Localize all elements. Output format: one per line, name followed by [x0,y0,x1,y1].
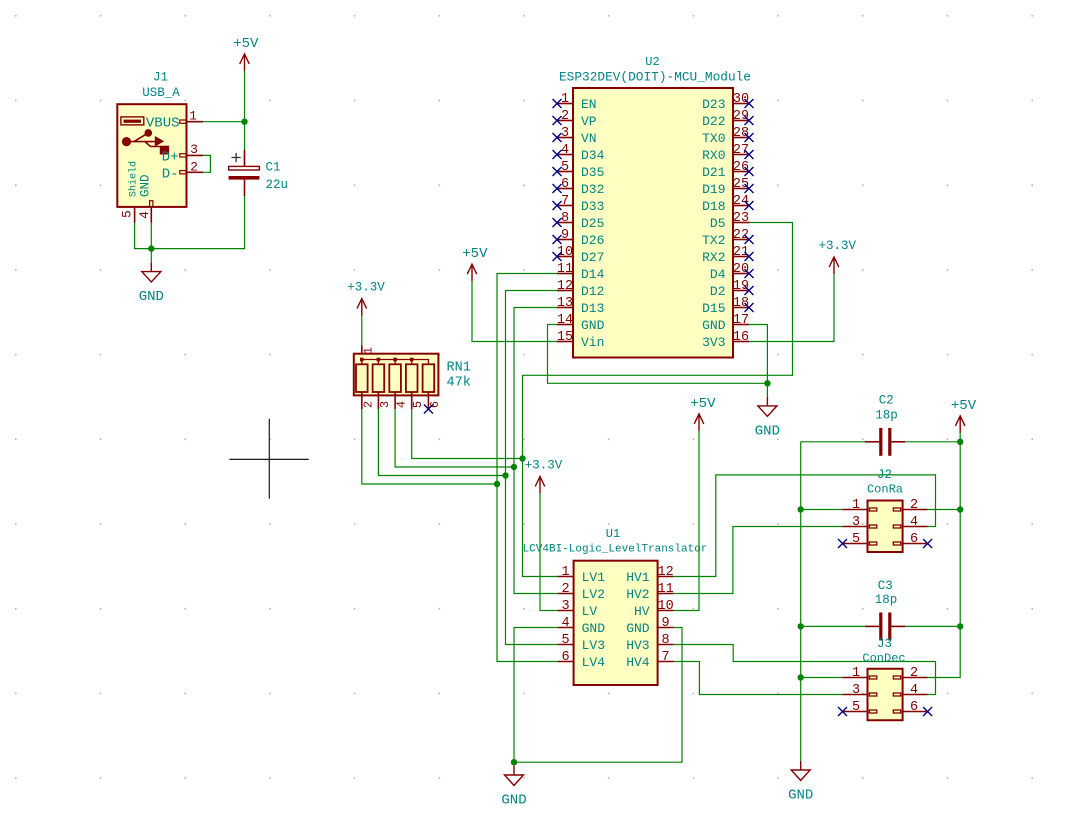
J1 pin 4 GND [137,174,153,222]
svg-text:4: 4 [395,401,409,408]
J2 pin 6 (right) [893,532,927,547]
svg-text:HV4: HV4 [626,655,650,670]
svg-text:USB_A: USB_A [142,86,180,100]
wire U1 pin9 GND loop [514,628,682,763]
connector J1 USB_A body [117,104,186,207]
svg-text:Vin: Vin [581,335,604,350]
svg-text:2: 2 [561,109,569,124]
svg-text:D25: D25 [581,216,604,231]
J1 pin 1 VBUS [146,109,203,132]
RN1 pin 4 (bottom) [395,392,409,409]
wire RN1 pin1 to +3.3V [361,315,363,345]
svg-text:11: 11 [657,582,673,597]
J3 pin 5 no-connect [838,707,847,716]
svg-text:ConRa: ConRa [867,482,903,496]
U2 pin 28 TX0 (right) [702,126,753,146]
svg-text:3: 3 [562,599,570,614]
svg-text:6: 6 [910,700,918,715]
power symbol +5V (above Vin) [462,246,488,281]
svg-text:18p: 18p [875,409,898,423]
wire RN1 pin 4 to bus junction [395,409,514,467]
svg-text:TX2: TX2 [702,233,725,248]
svg-text:EN: EN [581,97,597,112]
wire J1 pin5 to GND run [135,223,152,249]
U2 pin 26 D21 (right) [702,160,753,180]
junction GND rail at C3 [798,623,804,629]
svg-text:D12: D12 [581,284,604,299]
svg-text:2: 2 [361,401,375,408]
wire +3.3V to U1 pin3 LV [540,493,558,610]
J3 pin 6 (right) [893,700,927,715]
svg-text:22u: 22u [266,178,289,192]
svg-text:25: 25 [733,177,749,192]
svg-text:GND: GND [138,174,152,197]
U2 pin 1 EN (left) [553,92,597,112]
U1 pin 11 HV2 (right) [626,582,674,602]
svg-text:1: 1 [852,666,860,681]
svg-text:10: 10 [557,245,573,260]
svg-text:5: 5 [852,532,860,547]
svg-text:+5V: +5V [690,396,716,412]
U2 pin 2 VP (left) [553,109,597,129]
U2 pin 10 D27 (left) [553,245,605,265]
svg-text:14: 14 [557,313,573,328]
J1 USB trident logo [122,129,169,154]
svg-text:17: 17 [733,313,749,328]
U1 pin 2 LV2 (left) [558,582,605,602]
J2 pin 1 (left) [843,498,877,513]
svg-text:TX0: TX0 [702,131,725,146]
wire J1 pin4 down to GND junction [150,223,152,249]
U2 pin 24 D18 (right) [702,194,753,214]
power symbol +5V (above J1) [233,36,259,71]
wire +5V to U2 Vin [472,281,557,342]
junction U2 ground node [764,380,770,386]
svg-text:HV2: HV2 [626,587,649,602]
svg-text:7: 7 [561,194,569,209]
U1 pin 6 LV4 (left) [558,650,606,670]
U2 pin 15 Vin (left) [557,330,605,350]
svg-text:27: 27 [733,143,749,158]
svg-text:LV3: LV3 [582,638,605,653]
svg-text:+5V: +5V [462,246,488,262]
sheet origin crosshair [229,419,308,499]
svg-text:C2: C2 [879,394,894,408]
svg-text:4: 4 [137,211,152,219]
J3 pin 6 no-connect [923,707,932,716]
svg-text:GND: GND [702,318,726,333]
J2 pin 5 (left) [843,532,877,547]
svg-text:D23: D23 [702,97,725,112]
power symbol +5V (above U1 HV) [690,396,716,431]
svg-text:D34: D34 [581,148,605,163]
wire +5V to VBUS node [244,71,246,122]
wire shorting J1 D+ to D- [203,155,210,172]
svg-text:1: 1 [561,92,569,107]
svg-text:11: 11 [557,262,573,277]
junction RN1 pull-up to D13 line [511,464,517,470]
svg-text:VP: VP [581,114,597,129]
J2 pin 6 no-connect [923,539,932,548]
wire U2 pin16 3V3 to +3.3V [749,274,834,342]
svg-text:12: 12 [557,279,573,294]
U2 pin 8 D25 (left) [553,211,605,231]
svg-text:16: 16 [733,330,749,345]
svg-text:20: 20 [733,262,749,277]
capacitor C1 22u (polarized) [229,122,260,196]
wire C3 right to +5V rail [905,625,960,627]
junction J1 ground node [148,245,154,251]
wire net HV1: U1 pin12 to J2 pin4 [674,475,936,577]
svg-text:47k: 47k [447,375,471,390]
J2 pin 4 (right) [893,515,927,530]
U2 pin 14 GND (left) [557,313,605,333]
wire net D13: U2 pin13 to U1 LV2 [514,308,558,594]
U2 pin 5 D35 (left) [553,160,605,180]
svg-text:D4: D4 [710,267,726,282]
wire RN1 pin 5 to bus junction [412,409,523,459]
power symbol +3.3V (above RN1) [347,281,385,316]
svg-text:D14: D14 [581,267,605,282]
wire RN1 pin 2 to bus junction [362,409,497,484]
J2 pin 2 (right) [893,498,927,513]
svg-text:28: 28 [733,126,749,141]
U1 pin 8 HV3 (right) [626,633,673,653]
wire GND rail (C2/J2/C3/J3) [800,442,802,761]
svg-text:21: 21 [733,245,749,260]
J1 pin 2 D- [162,159,203,182]
svg-text:D15: D15 [702,301,725,316]
svg-text:5: 5 [852,700,860,715]
svg-text:RX2: RX2 [702,250,725,265]
J2 pin 3 (left) [843,515,877,530]
svg-text:1: 1 [562,565,570,580]
svg-text:3: 3 [852,515,860,530]
svg-text:3: 3 [561,126,569,141]
svg-text:19: 19 [733,279,749,294]
RN1 pin 3 (bottom) [378,392,392,409]
svg-text:13: 13 [557,296,573,311]
svg-text:D18: D18 [702,199,725,214]
svg-text:2: 2 [910,498,918,513]
U2 pin 7 D33 (left) [553,194,605,214]
svg-text:3: 3 [378,401,392,408]
U2 pin 20 D4 (right) [710,262,754,282]
svg-text:1: 1 [362,347,376,354]
U1 pin 9 GND (right) [626,616,673,636]
svg-text:ConDec: ConDec [862,651,905,665]
RN1 pin 1 (common, top) [362,345,376,354]
svg-text:VBUS: VBUS [146,116,180,132]
svg-text:D-: D- [162,166,179,182]
svg-text:5: 5 [119,210,134,218]
svg-text:5: 5 [562,633,570,648]
U2 pin 30 D23 (right) [702,92,753,112]
svg-text:8: 8 [561,211,569,226]
U2 pin 6 D32 (left) [553,177,605,197]
svg-text:6: 6 [561,177,569,192]
svg-text:U1: U1 [606,527,620,541]
junction +5V rail at C2 [957,439,963,445]
junction +5V rail at J2 pin2 [957,506,963,512]
svg-text:4: 4 [910,683,918,698]
U2 pin 21 RX2 (right) [702,245,753,265]
svg-text:D5: D5 [710,216,726,231]
ground symbol GND (bottom right) [788,761,813,803]
wire net HV2: J2 pin3 to U1 pin11 [674,527,843,594]
U2 pin 29 D22 (right) [702,109,753,129]
wire +5V to U1 pin10 HV [674,431,699,611]
svg-text:24: 24 [733,194,749,209]
U2 pin 13 D13 (left) [557,296,605,316]
wire C3 left to GND rail [801,625,865,627]
svg-text:+3.3V: +3.3V [347,281,385,295]
J3 pin 4 (right) [893,683,927,698]
U1 pin 4 GND (left) [558,616,606,636]
junction RN1 pull-up to D12 line [502,472,508,478]
svg-text:5: 5 [411,401,425,408]
svg-text:3V3: 3V3 [702,335,725,350]
svg-text:D33: D33 [581,199,604,214]
wire U2 pin14 GND to ground rail [548,325,768,384]
svg-text:LV2: LV2 [582,587,605,602]
RN1 pin 2 (bottom) [361,392,375,409]
U2 pin 23 D5 (right) [710,211,749,231]
svg-text:D2: D2 [710,284,726,299]
U2 pin 3 VN (left) [553,126,597,146]
svg-text:6: 6 [562,650,570,665]
svg-text:2: 2 [562,582,570,597]
wire net D12: U2 pin12 to U1 LV3 [506,291,558,645]
wire net HV3: U1 pin8 to J3 pin4 [674,645,936,695]
U1 pin 5 LV3 (left) [558,633,605,653]
svg-text:15: 15 [557,330,573,345]
svg-text:1: 1 [189,109,197,124]
J1 pin 3 D+ [162,142,203,165]
svg-text:J2: J2 [877,468,892,482]
wire stub to GND symbol [150,249,152,263]
svg-text:VN: VN [581,131,597,146]
capacitor C3 18p [865,613,905,641]
svg-text:5: 5 [561,160,569,175]
svg-text:LV: LV [582,604,598,619]
svg-text:9: 9 [561,228,569,243]
svg-text:GND: GND [788,787,813,803]
svg-text:D35: D35 [581,165,604,180]
svg-text:23: 23 [733,211,749,226]
wire +5V rail down to J3 pin2 [928,433,961,678]
U2 pin 18 D15 (right) [702,296,753,316]
svg-text:RX0: RX0 [702,148,725,163]
U1 pin 1 LV1 (left) [558,565,606,585]
svg-text:2: 2 [910,666,918,681]
U2 pin 22 TX2 (right) [702,228,753,248]
wire J1 VBUS to node A [203,121,245,123]
resistor network RN1 body [354,354,439,396]
svg-text:4: 4 [910,515,918,530]
ground symbol GND (below J1) [139,263,164,305]
power symbol +3.3V (right of U2) [818,239,856,274]
svg-text:HV: HV [634,604,650,619]
svg-text:GND: GND [755,423,780,439]
svg-text:+5V: +5V [233,36,259,52]
svg-text:3: 3 [852,683,860,698]
MCU module U2 body [573,88,733,358]
svg-text:18p: 18p [875,593,898,607]
svg-text:2: 2 [190,159,198,174]
svg-text:+3.3V: +3.3V [525,459,563,473]
svg-text:D+: D+ [162,149,179,165]
U1 pin 12 HV1 (right) [626,565,674,585]
svg-text:LV1: LV1 [582,570,606,585]
junction U1 ground node [511,759,517,765]
svg-text:U2: U2 [645,55,659,69]
U2 pin 12 D12 (left) [557,279,605,299]
svg-text:22: 22 [733,228,749,243]
svg-text:ESP32DEV(DOIT)-MCU_Module: ESP32DEV(DOIT)-MCU_Module [559,70,751,85]
wire net D14: U2 pin11 to U1 LV4 [497,274,558,662]
svg-text:LV4: LV4 [582,655,606,670]
svg-text:RN1: RN1 [447,361,471,376]
svg-text:10: 10 [657,599,673,614]
wire J2 pin1 to GND rail [801,509,843,511]
wire C1 bottom to GND run [151,196,244,249]
U2 pin 27 RX0 (right) [702,143,753,163]
junction RN1 pull-up to D5 line [519,455,525,461]
wire net HV4: U1 pin7 to J3 pin3 [674,662,843,695]
junction GND rail at J3 pin1 [798,674,804,680]
svg-text:LCV4BI-Logic_LevelTranslator: LCV4BI-Logic_LevelTranslator [523,544,708,556]
svg-text:1: 1 [852,498,860,513]
svg-text:30: 30 [733,92,749,107]
svg-text:D32: D32 [581,182,604,197]
U2 pin 4 D34 (left) [553,143,605,163]
svg-text:GND: GND [501,792,526,808]
RN1 pin 5 (bottom) [411,392,425,409]
U1 pin 3 LV (left) [558,599,598,619]
wire RN1 pin 3 to bus junction [378,409,505,476]
power symbol +5V (top right) [951,398,977,433]
junction RN1 pull-up to D14 line [494,481,500,487]
J2 pin 5 no-connect [838,539,847,548]
junction node A (VBUS/+5V/C1) [241,119,247,125]
J3 pin 1 (left) [843,666,877,681]
svg-text:8: 8 [662,633,670,648]
U2 pin 19 D2 (right) [710,279,754,299]
svg-text:D26: D26 [581,233,604,248]
wire J2 pin2 to +5V rail [928,509,961,511]
J1 pin 5 Shield [119,161,139,223]
U2 pin 25 D19 (right) [702,177,753,197]
connector J3 ConDec body [868,669,903,721]
U2 pin 11 D14 (left) [557,262,605,282]
capacitor C2 18p [865,428,905,456]
svg-text:4: 4 [561,143,569,158]
svg-text:GND: GND [581,318,605,333]
wire C2 left to GND rail [801,441,865,443]
svg-text:3: 3 [190,142,198,157]
wire U2 pin17 GND down [749,325,767,397]
svg-text:+3.3V: +3.3V [818,239,856,253]
power symbol +3.3V (above U1 LV) [525,459,563,494]
U2 pin 17 GND (right) [702,313,749,333]
svg-text:D19: D19 [702,182,725,197]
svg-text:GND: GND [139,289,164,305]
wire C2 right to +5V rail [905,441,960,443]
U1 pin 7 HV4 (right) [626,650,673,670]
J3 pin 5 (left) [843,700,877,715]
svg-text:GND: GND [626,621,650,636]
svg-text:HV3: HV3 [626,638,649,653]
svg-text:J3: J3 [877,637,892,651]
svg-text:9: 9 [662,616,670,631]
svg-text:D13: D13 [581,301,604,316]
svg-text:+5V: +5V [951,398,977,414]
J3 pin 3 (left) [843,683,877,698]
wire net D5: U2 pin23 to U1 LV1 [523,223,793,577]
RN1 pin 6 (no connect) [424,392,442,414]
ground symbol GND (below U1) [501,762,526,808]
J1 USB plug icon [121,117,144,125]
J3 pin 2 (right) [893,666,927,681]
ground symbol GND (below U2) [755,397,780,439]
svg-text:D22: D22 [702,114,725,129]
RN1 common bus and resistor elements [356,358,434,392]
svg-text:J1: J1 [153,71,168,85]
svg-text:12: 12 [657,565,673,580]
svg-text:D27: D27 [581,250,604,265]
svg-text:HV1: HV1 [626,570,650,585]
svg-text:GND: GND [582,621,606,636]
svg-text:4: 4 [562,616,570,631]
wire U1 pin4 GND down [514,628,558,763]
svg-text:26: 26 [733,160,749,175]
connector J2 ConRa body [868,501,903,553]
svg-text:C1: C1 [266,161,281,175]
U2 pin 9 D26 (left) [553,228,605,248]
U1 pin 10 HV (right) [634,599,674,619]
svg-text:29: 29 [733,109,749,124]
wire J3 pin1 to GND rail [801,677,843,679]
junction +5V rail at C3 [957,623,963,629]
svg-text:C3: C3 [878,579,893,593]
svg-text:7: 7 [662,650,670,665]
level translator U1 body [574,561,658,685]
junction GND rail at J2 pin1 [798,506,804,512]
svg-text:D21: D21 [702,165,726,180]
U2 pin 16 3V3 (right) [702,330,749,350]
svg-text:18: 18 [733,296,749,311]
svg-text:6: 6 [910,532,918,547]
